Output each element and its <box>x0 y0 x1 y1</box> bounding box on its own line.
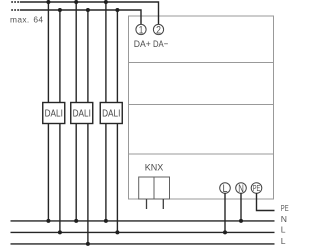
wire PE terminal stub <box>257 193 275 211</box>
terminal N <box>236 183 247 195</box>
svg-text:DA−: DA− <box>153 39 169 50</box>
junction DALI1-N <box>46 219 50 223</box>
wire DALI1 to N line <box>47 124 49 221</box>
junction dots on mains lines <box>46 219 119 246</box>
wire DALI3 left drop <box>105 2 107 103</box>
junction bus2-DALI2 <box>86 8 90 12</box>
wire DALI2 right drop <box>87 10 89 103</box>
wire N mains line <box>11 220 275 222</box>
ballast DALI 2 <box>71 103 93 124</box>
wire DA+ bus (second) with continuation dashes <box>11 10 141 25</box>
junction bus2-DALI1 <box>58 8 62 12</box>
junction DALI2-L2 <box>86 242 90 246</box>
wire N terminal to N line <box>240 193 242 221</box>
junction L-terminal-L-line <box>223 230 227 234</box>
junction bus1-DALI3 <box>104 0 108 4</box>
device divider 1 <box>129 62 274 64</box>
junction bus1-DALI1 <box>46 0 50 4</box>
svg-text:DALI: DALI <box>73 109 91 120</box>
svg-text:PE: PE <box>281 203 289 213</box>
svg-text:KNX: KNX <box>145 163 164 173</box>
KNX terminal block <box>139 177 170 199</box>
terminal PE <box>251 183 262 194</box>
wire L mains line <box>11 231 275 233</box>
device divider 2 <box>129 104 274 106</box>
wire DALI1 to L line <box>59 124 61 233</box>
svg-text:max. 64: max. 64 <box>10 15 43 25</box>
terminal 2 <box>153 24 163 36</box>
wire DA- bus (top) with continuation dashes <box>11 2 158 25</box>
wire DALI2 to N line <box>75 124 77 221</box>
wire L terminal to L line <box>224 193 226 232</box>
terminal 1 <box>136 24 146 36</box>
svg-text:DA+: DA+ <box>134 39 151 50</box>
wire DALI3 right drop <box>116 10 118 103</box>
wire DALI3 to L line <box>116 124 118 233</box>
wire DALI1 right drop <box>59 10 61 103</box>
device divider 3 <box>129 153 274 155</box>
svg-text:PE: PE <box>253 183 261 193</box>
ballast DALI 3 <box>100 103 122 124</box>
ballast DALI 1 <box>43 103 65 124</box>
svg-text:N: N <box>281 214 287 224</box>
svg-text:1: 1 <box>139 24 144 36</box>
junction DALI3-N <box>104 219 108 223</box>
junction dots on top buses <box>46 0 119 12</box>
junction DALI3-L <box>115 230 119 234</box>
wire DALI2 left drop <box>75 2 77 103</box>
junction bus1-DALI2 <box>74 0 78 4</box>
terminal L <box>220 183 231 195</box>
wire DALI3 to N line <box>105 124 107 221</box>
device outline U1 <box>129 16 274 199</box>
junction bus2-DALI3 <box>115 8 119 12</box>
svg-text:DALI: DALI <box>102 109 120 120</box>
svg-text:DALI: DALI <box>45 109 63 120</box>
svg-text:L: L <box>281 236 286 246</box>
svg-text:2: 2 <box>156 24 161 36</box>
svg-text:L: L <box>281 224 286 234</box>
junction DALI1-L <box>58 230 62 234</box>
junction DALI2-N <box>74 219 78 223</box>
KNX pin 1 <box>146 199 148 209</box>
wire DALI2 to L2 line <box>87 124 89 244</box>
wire DALI1 left drop <box>47 2 49 103</box>
wire L2 mains line <box>11 243 275 245</box>
junction N-terminal-N-line <box>239 219 243 223</box>
KNX pin 2 <box>162 199 164 209</box>
